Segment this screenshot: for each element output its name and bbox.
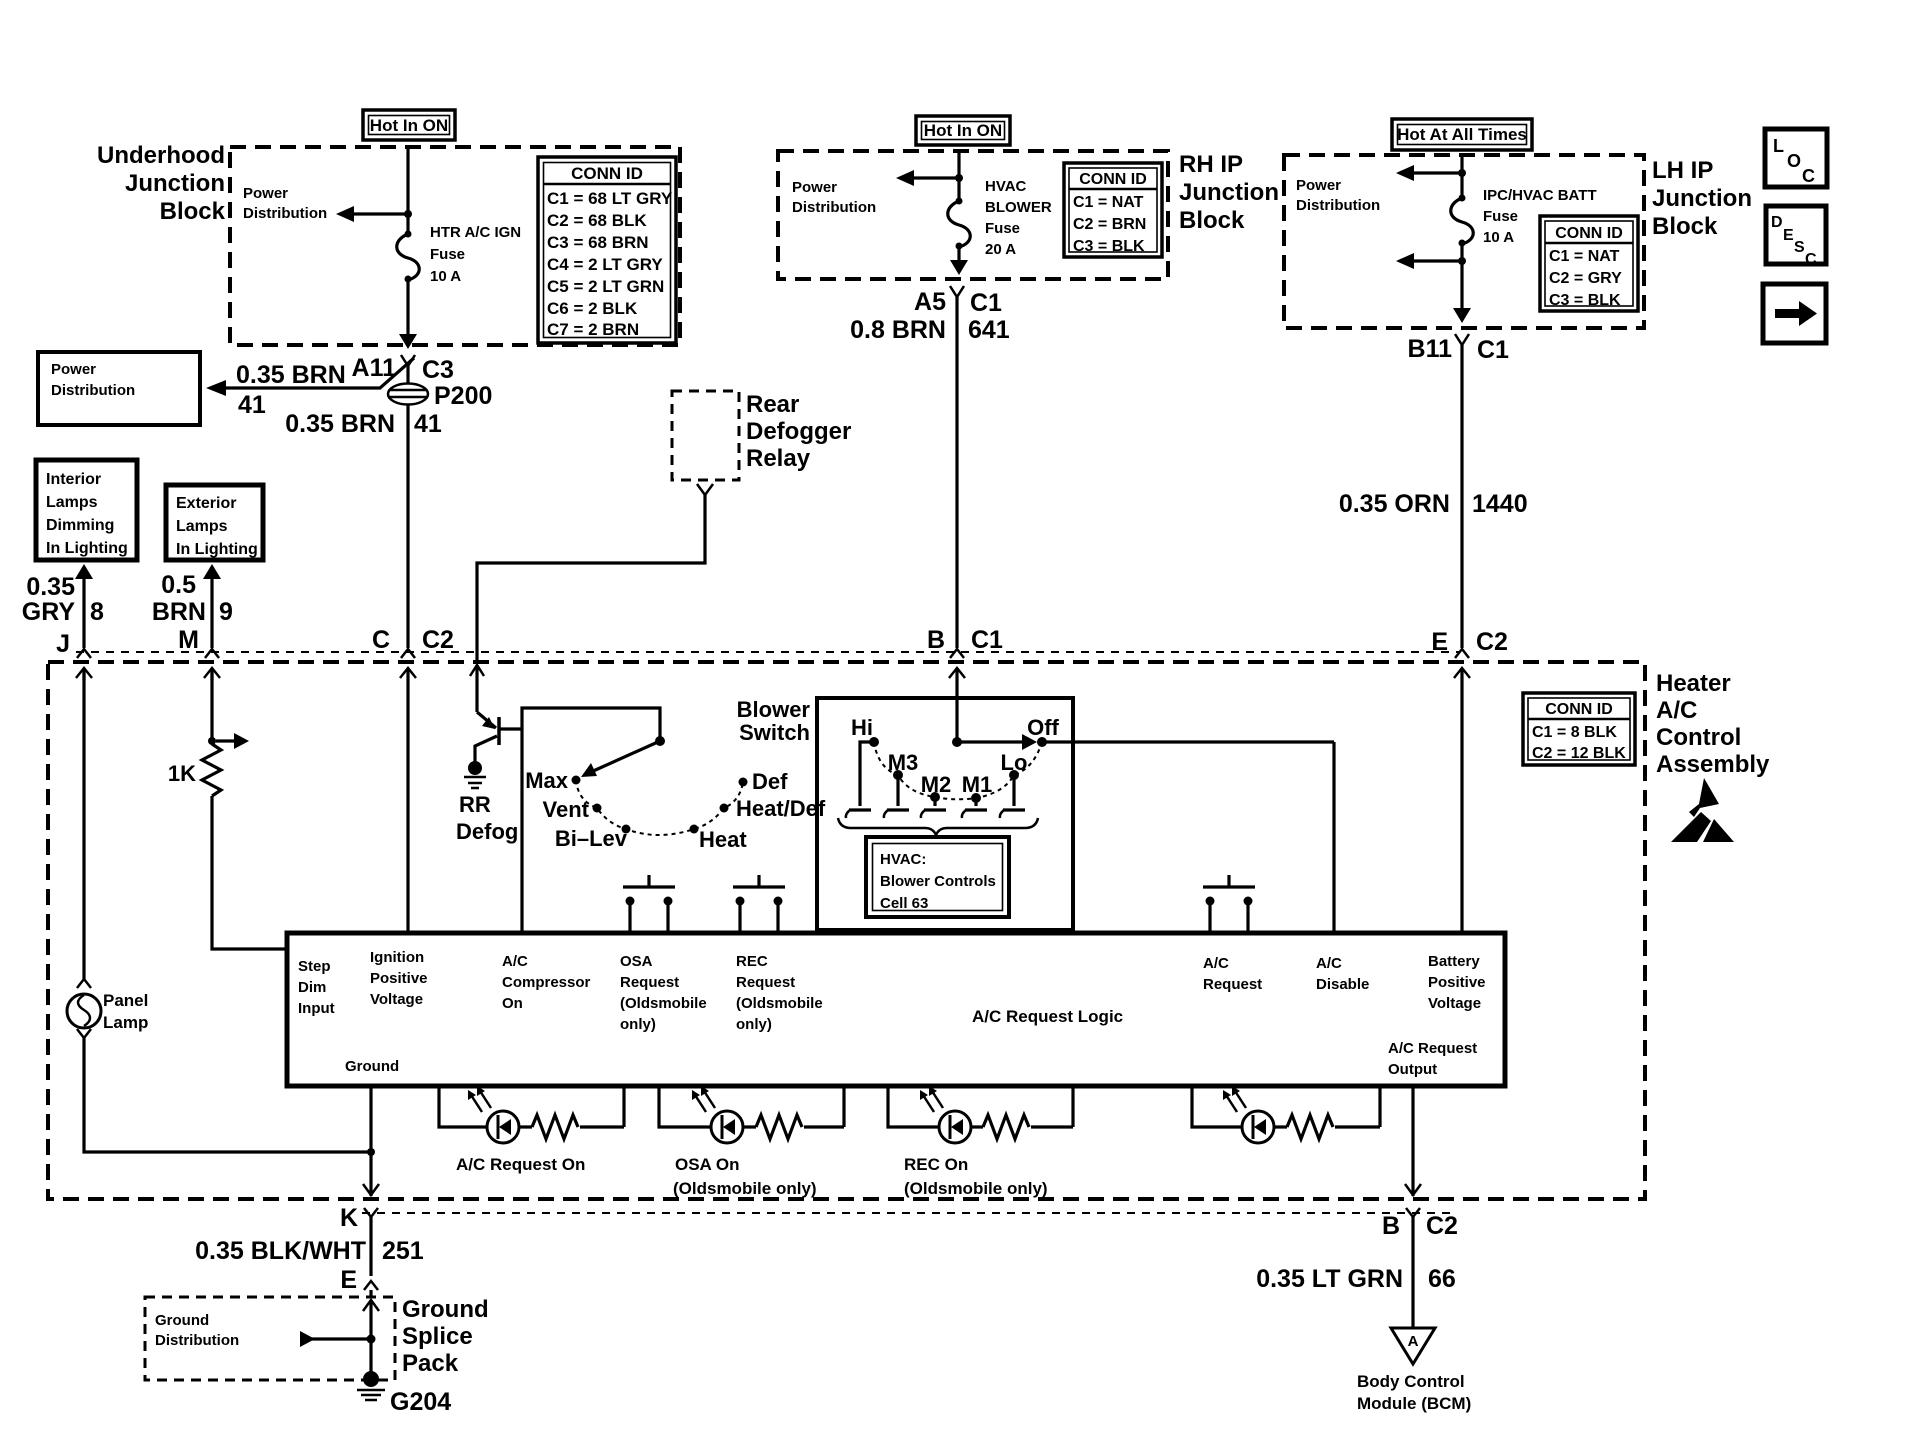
svg-text:Module (BCM): Module (BCM)	[1357, 1394, 1471, 1413]
svg-text:Request: Request	[620, 974, 679, 991]
box: Exterior Lamps In Lighting	[166, 485, 263, 560]
svg-text:Power: Power	[243, 185, 288, 202]
svg-text:B: B	[1382, 1212, 1400, 1240]
svg-text:M3: M3	[888, 750, 919, 775]
enclosure: RH IP Junction Block (dashed)	[778, 151, 1168, 279]
svg-text:251: 251	[382, 1237, 424, 1265]
svg-text:(Oldsmobile: (Oldsmobile	[620, 995, 707, 1012]
svg-text:GRY: GRY	[22, 598, 76, 626]
svg-text:Junction: Junction	[1179, 179, 1279, 206]
wire: Off line down to A/C Disable pin	[1332, 742, 1335, 933]
wire: Rear Defogger Relay output to RR Defog input	[470, 484, 713, 712]
svg-text:E: E	[1431, 628, 1448, 656]
connector A11 / C3	[352, 354, 454, 384]
svg-text:8: 8	[90, 598, 104, 626]
table: CONN ID (heater A/C control assembly)	[1523, 693, 1635, 765]
LED circuit: OSA On indicator	[659, 1086, 844, 1198]
ground: RR Defog emitter ground	[464, 761, 486, 788]
label: LH IP Junction Block	[1652, 157, 1752, 240]
label: 0.35 LT GRN 66	[1256, 1265, 1456, 1293]
svg-text:Request: Request	[736, 974, 795, 991]
svg-text:CONN ID: CONN ID	[1545, 701, 1613, 718]
svg-text:Voltage: Voltage	[370, 991, 423, 1008]
connector face line (bottom, thin dashed)	[362, 1212, 1452, 1214]
svg-text:Lamps: Lamps	[46, 494, 98, 511]
svg-text:Blower Controls: Blower Controls	[880, 873, 996, 890]
svg-text:Voltage: Voltage	[1428, 995, 1481, 1012]
connector C / C2	[372, 626, 454, 678]
svg-text:C5 = 2 LT GRN: C5 = 2 LT GRN	[547, 277, 664, 296]
pin label: Ignition Positive Voltage	[370, 949, 428, 1008]
label: A/C Request Logic	[972, 1007, 1123, 1026]
svg-text:C1 = 68 LT GRY: C1 = 68 LT GRY	[547, 189, 673, 208]
label: Heater A/C Control Assembly	[1656, 670, 1770, 778]
svg-text:C2 = BRN: C2 = BRN	[1073, 216, 1146, 233]
svg-text:Distribution: Distribution	[792, 199, 876, 216]
svg-text:Dim: Dim	[298, 979, 326, 996]
label: Ground Distribution	[155, 1312, 239, 1349]
connector E / C2	[1431, 628, 1508, 678]
svg-text:only): only)	[620, 1016, 656, 1033]
svg-text:Fuse: Fuse	[430, 246, 465, 263]
svg-text:Assembly: Assembly	[1656, 751, 1770, 778]
svg-text:C3: C3	[422, 356, 454, 384]
svg-text:9: 9	[219, 598, 233, 626]
svg-text:Defog: Defog	[456, 819, 518, 844]
svg-text:C2: C2	[1426, 1212, 1458, 1240]
label: RH IP Junction Block	[1179, 151, 1279, 234]
svg-text:0.35 LT GRN: 0.35 LT GRN	[1256, 1265, 1403, 1293]
box: Power Distribution (left)	[38, 352, 200, 425]
switch: mode position contacts Max/Vent/Bi-Lev/Heat/Heat-Def/Def	[572, 776, 748, 836]
splice P200	[388, 366, 492, 410]
svg-text:Hi: Hi	[851, 715, 873, 740]
LED circuit: A/C Request On indicator	[439, 1086, 624, 1174]
svg-text:Ground: Ground	[345, 1058, 399, 1075]
svg-text:41: 41	[238, 391, 266, 419]
svg-text:Ground: Ground	[402, 1296, 489, 1323]
fuse: IPC/HVAC BATT 10 A	[1451, 195, 1474, 324]
svg-text:G204: G204	[390, 1388, 451, 1416]
svg-text:Dimming: Dimming	[46, 517, 114, 534]
svg-text:M: M	[178, 626, 199, 654]
svg-text:C2 = 68 BLK: C2 = 68 BLK	[547, 211, 647, 230]
svg-text:41: 41	[414, 410, 442, 438]
pin label: A/C Request	[1203, 955, 1262, 993]
svg-text:Ground: Ground	[155, 1312, 209, 1329]
wire: 0.35 BRN 41 branch to Power Distribution (left)	[206, 358, 414, 419]
label: 0.35 BLK/WHT 251	[195, 1237, 424, 1265]
label: Body Control Module (BCM)	[1357, 1372, 1471, 1413]
pin label: A/C Compressor On	[502, 953, 591, 1012]
pushbutton: REC request	[733, 875, 785, 933]
svg-text:S: S	[1794, 239, 1805, 256]
svg-text:C: C	[1802, 166, 1815, 186]
svg-text:Max: Max	[525, 768, 569, 793]
svg-text:Fuse: Fuse	[1483, 208, 1518, 225]
svg-text:A/C Request Logic: A/C Request Logic	[972, 1007, 1123, 1026]
svg-text:Defogger: Defogger	[746, 418, 851, 445]
svg-text:Positive: Positive	[370, 970, 428, 987]
svg-text:B11: B11	[1408, 335, 1453, 363]
pushbutton: A/C request	[1203, 875, 1255, 933]
svg-text:C: C	[372, 626, 390, 654]
button: LOC	[1765, 129, 1827, 187]
svg-text:A/C: A/C	[502, 953, 528, 970]
connector B / C2	[1382, 1208, 1458, 1327]
svg-text:Output: Output	[1388, 1061, 1437, 1078]
fuse: HVAC BLOWER 20 A	[948, 198, 971, 276]
svg-text:OSA: OSA	[620, 953, 653, 970]
wire: panel lamp return to ground node	[84, 1038, 371, 1152]
connector J	[56, 630, 92, 680]
svg-text:1K: 1K	[168, 761, 196, 786]
switch: blower contact Hi	[846, 715, 879, 818]
wire: blower feed into blower switch	[955, 668, 958, 742]
svg-text:66: 66	[1428, 1265, 1456, 1293]
svg-text:(Oldsmobile only): (Oldsmobile only)	[904, 1179, 1048, 1198]
svg-text:Block: Block	[160, 198, 226, 225]
enclosure: LH IP Junction Block (dashed)	[1284, 155, 1644, 328]
switch: blower wiper feed junction to Off	[952, 734, 1334, 750]
svg-text:A5: A5	[914, 288, 946, 316]
wire: ignition feed from Hot In ON down to fuse	[404, 147, 412, 232]
svg-text:Vent: Vent	[543, 797, 590, 822]
switch: blower contact M2	[921, 772, 952, 818]
box: Ground Splice Pack (dashed)	[145, 1296, 489, 1380]
ground: G204	[357, 1371, 451, 1416]
svg-text:Off: Off	[1027, 715, 1059, 740]
svg-text:Cell 63: Cell 63	[880, 895, 928, 912]
svg-text:J: J	[56, 630, 70, 658]
svg-text:Block: Block	[1179, 207, 1245, 234]
wire: ground pin to connector K	[363, 1086, 379, 1196]
svg-text:A/C Request On: A/C Request On	[456, 1155, 585, 1174]
svg-text:CONN ID: CONN ID	[1555, 225, 1623, 242]
wire: 0.8 BRN 641 down to connector B/C1	[850, 297, 1010, 648]
pin label: A/C Request Output	[1388, 1040, 1477, 1078]
label: Underhood Junction Block	[97, 142, 226, 225]
connector B11 / C1	[1408, 334, 1510, 364]
svg-text:Distribution: Distribution	[243, 205, 327, 222]
label: HVAC BLOWER Fuse 20 A	[985, 178, 1052, 258]
connector K	[340, 1204, 378, 1276]
svg-text:0.8 BRN: 0.8 BRN	[850, 316, 946, 344]
connector E (ground splice pack)	[340, 1266, 378, 1297]
label box: Hot At All Times (LH IP feed)	[1392, 119, 1532, 150]
svg-text:Heat: Heat	[699, 827, 747, 852]
svg-text:Distribution: Distribution	[155, 1332, 239, 1349]
svg-text:C1: C1	[971, 626, 1003, 654]
svg-text:E: E	[340, 1266, 357, 1294]
svg-text:OSA On: OSA On	[675, 1155, 740, 1174]
connector M	[178, 626, 220, 680]
svg-text:REC On: REC On	[904, 1155, 968, 1174]
svg-text:Request: Request	[1203, 976, 1262, 993]
svg-text:B: B	[927, 626, 945, 654]
box: A/C Request Logic module	[287, 933, 1505, 1086]
svg-text:C2: C2	[1476, 628, 1508, 656]
svg-text:Hot In ON: Hot In ON	[924, 121, 1002, 140]
svg-text:Power: Power	[1296, 177, 1341, 194]
connector B / C1	[927, 626, 1003, 678]
svg-text:A/C: A/C	[1316, 955, 1342, 972]
svg-text:0.35 ORN: 0.35 ORN	[1339, 490, 1450, 518]
label box: Hot In ON (RH IP feed)	[916, 116, 1010, 145]
svg-text:20 A: 20 A	[985, 241, 1016, 258]
pin label: OSA Request (Oldsmobile only)	[620, 953, 707, 1033]
switch: blower positions dashed arc	[874, 742, 1042, 799]
brace: blower speed contacts group	[838, 818, 1038, 835]
label: RR Defog	[456, 792, 518, 844]
svg-text:Junction: Junction	[125, 170, 225, 197]
wire: ground splice feed with branch	[300, 1300, 379, 1372]
svg-text:Panel: Panel	[103, 991, 148, 1010]
svg-text:Step: Step	[298, 958, 331, 975]
svg-text:A: A	[1408, 1333, 1419, 1350]
svg-text:HTR A/C IGN: HTR A/C IGN	[430, 224, 521, 241]
svg-text:C1 = NAT: C1 = NAT	[1073, 194, 1144, 211]
svg-text:Heater: Heater	[1656, 670, 1731, 697]
svg-text:Block: Block	[1652, 213, 1718, 240]
svg-text:BLOWER: BLOWER	[985, 199, 1052, 216]
wire: ignition positive voltage into logic box	[406, 668, 409, 933]
svg-text:A/C Request: A/C Request	[1388, 1040, 1477, 1057]
svg-text:C7 = 2 BRN: C7 = 2 BRN	[547, 320, 639, 339]
svg-text:Blower: Blower	[737, 697, 811, 722]
svg-text:A/C: A/C	[1203, 955, 1229, 972]
svg-text:Bi–Lev: Bi–Lev	[555, 826, 628, 851]
svg-text:In Lighting: In Lighting	[46, 540, 128, 557]
note box: HVAC Blower Controls Cell 63	[866, 837, 1009, 917]
wire: 0.35 BRN 41 down to connector C/C2	[285, 404, 442, 648]
svg-text:C1 = NAT: C1 = NAT	[1549, 248, 1620, 265]
svg-text:Def: Def	[752, 769, 788, 794]
svg-text:Power: Power	[792, 179, 837, 196]
svg-text:D: D	[1771, 214, 1783, 231]
wire: A/C compressor switch frame	[522, 708, 660, 933]
svg-text:L: L	[1773, 136, 1784, 156]
switch: mode rotary wiper (pivot to Max)	[581, 736, 665, 777]
connector face line (top, thin dashed)	[76, 651, 1460, 653]
wire: A/C request output to connector B/C2	[1405, 1086, 1421, 1196]
lamp: Panel Lamp	[67, 979, 148, 1038]
svg-text:Battery: Battery	[1428, 953, 1480, 970]
LED circuit: REC On indicator	[888, 1086, 1073, 1198]
enclosure: Underhood Junction Block (dashed)	[230, 147, 680, 345]
svg-text:Distribution: Distribution	[51, 382, 135, 399]
pin label: A/C Disable	[1316, 955, 1369, 993]
svg-text:C1 = 8 BLK: C1 = 8 BLK	[1532, 724, 1617, 741]
svg-text:IPC/HVAC BATT: IPC/HVAC BATT	[1483, 187, 1597, 204]
svg-text:C2 = 12 BLK: C2 = 12 BLK	[1532, 745, 1626, 762]
switch: blower contact Lo	[1000, 750, 1028, 818]
svg-text:Splice: Splice	[402, 1323, 473, 1350]
svg-text:A/C: A/C	[1656, 697, 1697, 724]
table: CONN ID (underhood junction block)	[538, 157, 676, 343]
svg-text:0.35 BRN: 0.35 BRN	[236, 361, 346, 389]
svg-text:0.35: 0.35	[26, 573, 75, 601]
box: Interior Lamps Dimming In Lighting	[36, 460, 137, 560]
svg-text:0.35 BRN: 0.35 BRN	[285, 410, 395, 438]
svg-text:Lamp: Lamp	[103, 1013, 148, 1032]
svg-text:Fuse: Fuse	[985, 220, 1020, 237]
svg-text:P200: P200	[434, 382, 492, 410]
pin label: Step Dim Input	[298, 958, 335, 1017]
table: CONN ID (LH IP junction block)	[1540, 216, 1638, 311]
svg-text:K: K	[340, 1204, 358, 1232]
wire: LH IP feed, two Power Distribution branches	[1296, 155, 1466, 269]
resistor: 1K step dim rheostat	[168, 668, 287, 949]
label box: Hot In ON (underhood feed)	[363, 110, 455, 140]
svg-text:Hot In ON: Hot In ON	[370, 116, 448, 135]
svg-text:(Oldsmobile only): (Oldsmobile only)	[673, 1179, 817, 1198]
svg-text:Power: Power	[51, 361, 96, 378]
svg-text:C: C	[1805, 251, 1817, 268]
svg-text:C3 = BLK: C3 = BLK	[1549, 292, 1621, 309]
transistor: RR Defog input stage	[475, 712, 521, 762]
svg-text:C1: C1	[970, 289, 1002, 317]
svg-text:BRN: BRN	[152, 598, 206, 626]
wire: Power Distribution branch arrow (underhood)	[243, 185, 408, 222]
svg-text:C4 = 2 LT GRY: C4 = 2 LT GRY	[547, 255, 663, 274]
svg-text:Compressor: Compressor	[502, 974, 591, 991]
pin label: REC Request (Oldsmobile only)	[736, 953, 823, 1033]
svg-text:O: O	[1787, 151, 1801, 171]
switch: blower Off contact label	[1027, 715, 1059, 740]
svg-text:Exterior: Exterior	[176, 495, 236, 512]
svg-text:Control: Control	[1656, 724, 1741, 751]
button: DESC	[1766, 206, 1826, 268]
svg-text:Hot At All Times: Hot At All Times	[1397, 125, 1527, 144]
svg-text:1440: 1440	[1472, 490, 1528, 518]
svg-text:Input: Input	[298, 1000, 335, 1017]
svg-text:Interior: Interior	[46, 471, 101, 488]
svg-text:M2: M2	[921, 772, 952, 797]
svg-text:RH IP: RH IP	[1179, 151, 1243, 178]
svg-text:HVAC:: HVAC:	[880, 851, 926, 868]
wire: RH IP feed with Power Distribution branch	[792, 151, 963, 216]
wire: 0.5 BRN 9 (exterior lamps input)	[152, 564, 233, 648]
svg-text:Switch: Switch	[739, 720, 810, 745]
wire: panel lamp dimming feed from connector J	[82, 668, 85, 979]
svg-text:REC: REC	[736, 953, 768, 970]
svg-text:C2 = GRY: C2 = GRY	[1549, 270, 1622, 287]
svg-text:Pack: Pack	[402, 1350, 459, 1377]
labels: mode positions	[525, 768, 826, 852]
svg-text:Lamps: Lamps	[176, 518, 228, 535]
connector A5 / C1	[914, 286, 1002, 317]
svg-text:Underhood: Underhood	[97, 142, 225, 169]
label: HTR A/C IGN Fuse 10 A	[430, 224, 521, 285]
fuse: HTR A/C IGN 10 A	[397, 231, 420, 350]
svg-text:(Oldsmobile: (Oldsmobile	[736, 995, 823, 1012]
svg-text:HVAC: HVAC	[985, 178, 1027, 195]
label: IPC/HVAC BATT Fuse 10 A	[1483, 187, 1597, 246]
wire: 0.35 GRY 8 (panel dimming input)	[22, 564, 104, 648]
svg-text:0.5: 0.5	[161, 571, 196, 599]
svg-text:M1: M1	[962, 772, 993, 797]
svg-text:Heat/Def: Heat/Def	[736, 796, 826, 821]
svg-text:C6 = 2 BLK: C6 = 2 BLK	[547, 299, 638, 318]
svg-text:10 A: 10 A	[1483, 229, 1514, 246]
box: blower switch	[817, 698, 1073, 930]
svg-text:C1: C1	[1477, 336, 1509, 364]
svg-text:CONN ID: CONN ID	[1079, 171, 1147, 188]
svg-text:641: 641	[968, 316, 1010, 344]
switch: blower contact M3	[884, 750, 918, 818]
svg-text:Relay: Relay	[746, 445, 811, 472]
svg-text:0.35 BLK/WHT: 0.35 BLK/WHT	[195, 1237, 366, 1265]
svg-text:Rear: Rear	[746, 391, 799, 418]
svg-text:RR: RR	[459, 792, 491, 817]
svg-text:Junction: Junction	[1652, 185, 1752, 212]
svg-text:C3 = BLK: C3 = BLK	[1073, 238, 1145, 255]
pin label: Battery Positive Voltage	[1428, 953, 1486, 1012]
svg-text:10 A: 10 A	[430, 268, 461, 285]
box: Rear Defogger Relay (dashed)	[672, 391, 851, 480]
wire: battery positive voltage into logic box	[1460, 668, 1463, 933]
button: next page arrow	[1763, 284, 1826, 343]
svg-text:only): only)	[736, 1016, 772, 1033]
symbol: ESD sensitive device warning	[1671, 778, 1734, 842]
svg-text:Disable: Disable	[1316, 976, 1369, 993]
svg-text:C3 = 68 BRN: C3 = 68 BRN	[547, 233, 649, 252]
svg-text:E: E	[1783, 227, 1794, 244]
enclosure: Heater A/C Control Assembly (heavy dashed box)	[48, 662, 1645, 1199]
svg-text:Positive: Positive	[1428, 974, 1486, 991]
switch: blower contact M1	[962, 772, 993, 818]
svg-text:On: On	[502, 995, 523, 1012]
svg-text:Body Control: Body Control	[1357, 1372, 1465, 1391]
label: Blower Switch	[737, 697, 811, 745]
svg-text:LH IP: LH IP	[1652, 157, 1713, 184]
svg-text:In Lighting: In Lighting	[176, 541, 258, 558]
svg-text:CONN ID: CONN ID	[571, 164, 643, 183]
off-page reference: A (to BCM)	[1391, 1328, 1435, 1364]
svg-text:Distribution: Distribution	[1296, 197, 1380, 214]
table: CONN ID (RH IP junction block)	[1064, 163, 1162, 257]
svg-text:C2: C2	[422, 626, 454, 654]
wire: 0.35 ORN 1440 down to connector E/C2	[1339, 345, 1528, 648]
pin label: Ground	[345, 1058, 399, 1075]
LED circuit: A/C request output indicator	[1192, 1086, 1380, 1143]
svg-text:Ignition: Ignition	[370, 949, 424, 966]
pushbutton: OSA request	[623, 875, 675, 933]
